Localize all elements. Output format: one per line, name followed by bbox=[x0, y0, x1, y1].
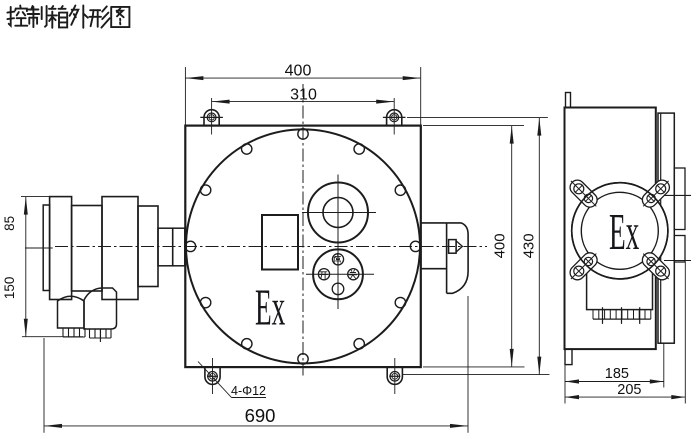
mounting ear bottom-right with bolt hole bbox=[387, 358, 402, 394]
svg-text:4-Φ12: 4-Φ12 bbox=[231, 384, 266, 398]
handle body bbox=[447, 223, 469, 293]
front vertical centerline bbox=[302, 84, 304, 376]
side terminal box bbox=[587, 268, 653, 310]
svg-text:430: 430 bbox=[520, 233, 537, 258]
side bolt bar lines right bbox=[664, 195, 691, 260]
dim 400 right vertical bbox=[423, 126, 525, 367]
mounting ear top-right with bolt hole bbox=[383, 98, 406, 135]
svg-text:Ex: Ex bbox=[609, 203, 639, 261]
window rectangle bbox=[262, 215, 298, 270]
dim 310 top bbox=[212, 86, 395, 103]
svg-text:Ex: Ex bbox=[255, 278, 285, 336]
dim 185 side bbox=[565, 344, 664, 404]
gland foot left with terminals bbox=[58, 296, 86, 337]
svg-text:690: 690 bbox=[245, 405, 276, 426]
side right protrusion upper bbox=[674, 168, 685, 230]
side top tab bbox=[566, 93, 571, 108]
svg-text:400: 400 bbox=[492, 233, 509, 258]
side bolt lug bottom-right bbox=[639, 250, 672, 283]
dim 85 and 150 left bbox=[2, 197, 83, 337]
button group horizontal line bbox=[306, 273, 374, 275]
side flange circle bbox=[572, 183, 668, 279]
button group circle bbox=[313, 249, 363, 299]
flange bolt holes ring (12x) bbox=[185, 129, 420, 364]
side right protrusion lower bbox=[674, 236, 685, 263]
side flange outer rim restroke bbox=[572, 183, 668, 279]
side bolt lug top-left bbox=[567, 177, 600, 210]
gland flange 2 bbox=[102, 197, 138, 300]
side bolt lug bottom-left bbox=[567, 250, 600, 283]
front main flange circle bbox=[186, 129, 420, 363]
ammeter crosshair lines bbox=[302, 175, 376, 310]
side view main body bbox=[565, 108, 656, 350]
handle latch square and cone bbox=[449, 240, 463, 254]
dim 430 right vertical bbox=[402, 118, 550, 375]
side door panel bbox=[658, 113, 674, 343]
front horizontal centerline bbox=[55, 246, 487, 248]
side terminal comb bbox=[593, 307, 651, 324]
dim 690 bottom bbox=[44, 296, 468, 433]
svg-text:400: 400 bbox=[285, 63, 312, 80]
svg-text:205: 205 bbox=[617, 382, 641, 398]
mounting ear bottom-left with bolt hole bbox=[205, 358, 220, 394]
gland side plate bbox=[43, 205, 49, 291]
gland body 2 bbox=[138, 206, 158, 287]
leader line 4-phi12 bbox=[198, 362, 266, 398]
front view enclosure box bbox=[185, 126, 420, 368]
gland body 1 bbox=[72, 206, 102, 292]
svg-text:150: 150 bbox=[2, 277, 17, 300]
button 关 (close) bbox=[348, 269, 359, 280]
side bolt lug top-right bbox=[639, 177, 672, 210]
svg-text:185: 185 bbox=[605, 366, 629, 382]
button 停 (stop) bbox=[332, 254, 343, 265]
mounting ear top-left with bolt hole bbox=[200, 98, 223, 135]
dim 400 top bbox=[185, 63, 420, 125]
gland foot right with terminals bbox=[84, 288, 117, 342]
svg-text:310: 310 bbox=[290, 86, 317, 103]
button 开 (open) bbox=[318, 269, 329, 280]
side bottom tab bbox=[565, 349, 572, 365]
ammeter circle bbox=[308, 183, 368, 243]
handle base rect bbox=[421, 223, 447, 293]
gland flange 1 bbox=[50, 197, 72, 300]
gland neck to box bbox=[158, 228, 185, 266]
button blank (bottom) bbox=[332, 283, 344, 295]
title 控制箱外形图 (drawn strokes) bbox=[7, 6, 129, 28]
svg-text:85: 85 bbox=[2, 216, 17, 231]
dim 205 side bbox=[565, 262, 685, 404]
